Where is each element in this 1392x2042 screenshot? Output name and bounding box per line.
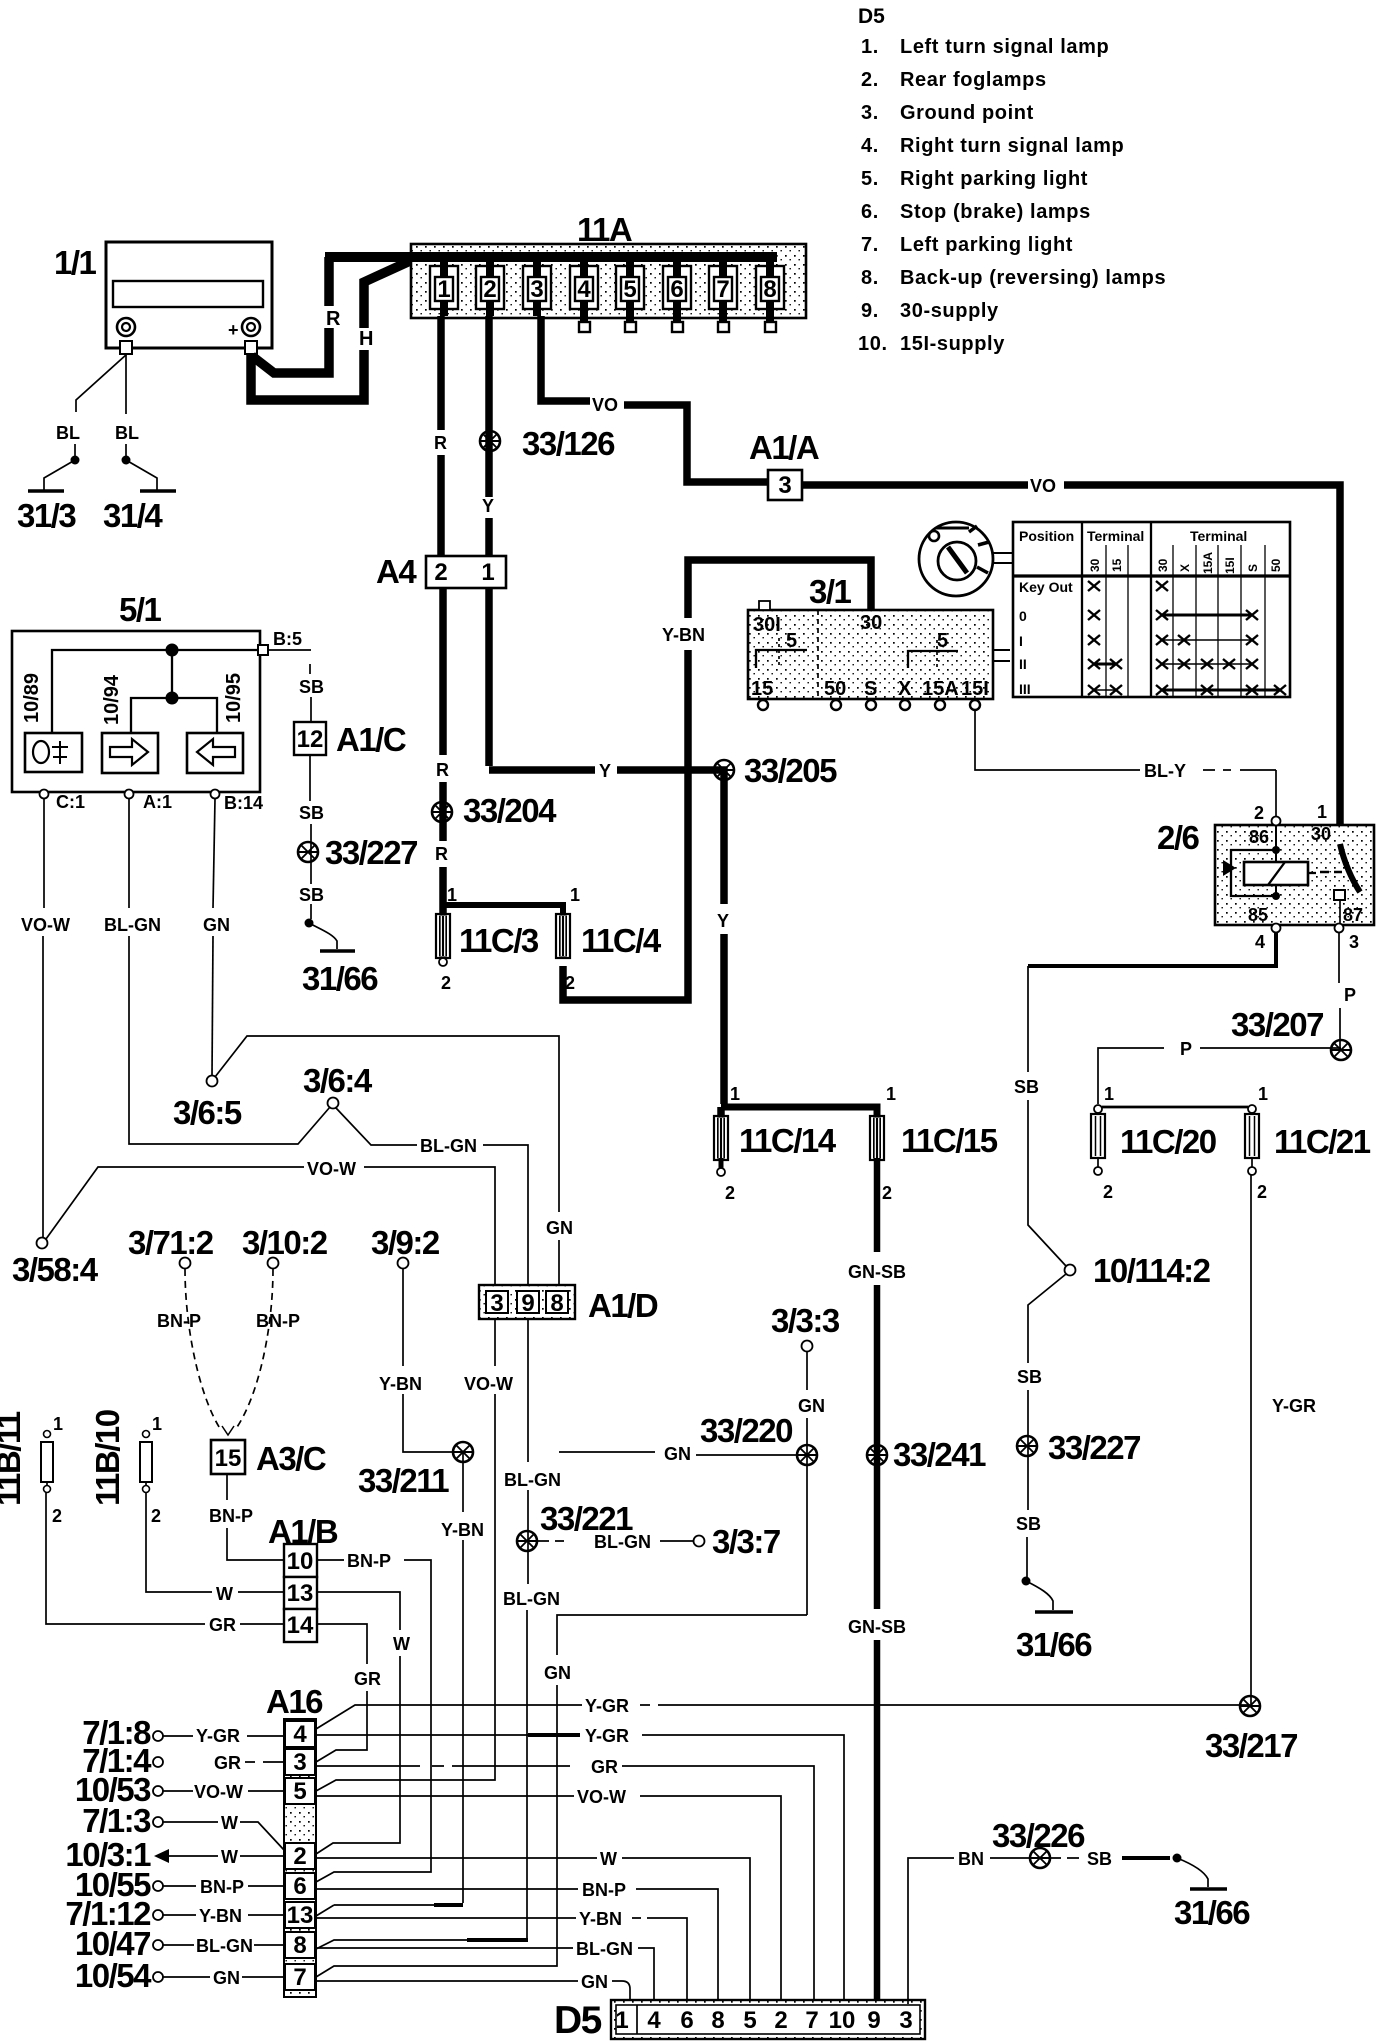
- svg-text:2: 2: [774, 2007, 787, 2034]
- svg-text:5: 5: [786, 630, 797, 652]
- fuse 4: [575, 277, 593, 301]
- svg-text:3.: 3.: [861, 102, 879, 124]
- wire Y from A4 pin 1 to splice 33/205: [489, 588, 595, 770]
- svg-text:BN-P: BN-P: [582, 1880, 626, 1900]
- connector 3/3:7: [694, 1536, 705, 1547]
- svg-text:VO-W: VO-W: [577, 1787, 626, 1807]
- wire BL-Y from 3/1 terminal 15I to relay 2/6 pin 2: [975, 710, 1140, 770]
- svg-text:8.: 8.: [861, 267, 879, 289]
- svg-text:W: W: [393, 1634, 410, 1654]
- svg-text:GN-SB: GN-SB: [848, 1617, 906, 1637]
- svg-text:Y-BN: Y-BN: [662, 625, 705, 645]
- bus bar: [325, 252, 777, 262]
- svg-text:A1/C: A1/C: [336, 721, 406, 758]
- svg-text:6.: 6.: [861, 201, 879, 223]
- svg-text:S: S: [864, 678, 877, 700]
- svg-text:2: 2: [1254, 803, 1264, 823]
- battery 1/1: [54, 242, 272, 354]
- svg-text:X: X: [1178, 564, 1192, 572]
- wire GN row from A16 pin 7 to D5 pin 1: [316, 1980, 578, 1982]
- pin A:1: [125, 790, 134, 799]
- wire BN-P from A1/B pin 10 down to A16 pin 6: [317, 1559, 344, 1561]
- svg-text:2: 2: [441, 973, 451, 993]
- svg-text:3/58:4: 3/58:4: [12, 1251, 99, 1288]
- wire GR from 11B/11 pin 2 to A1/B pin 14: [46, 1493, 205, 1624]
- svg-text:W: W: [221, 1847, 238, 1867]
- svg-text:A1/A: A1/A: [749, 429, 819, 466]
- svg-text:Right parking light: Right parking light: [900, 168, 1088, 190]
- wire P from 33/207 to fuse 11C/20: [1200, 1047, 1341, 1049]
- legend D5: [858, 5, 1166, 355]
- svg-text:2: 2: [52, 1506, 62, 1526]
- connector D5: [554, 1999, 925, 2042]
- splice 33/221: [517, 1531, 537, 1551]
- fuse 1: [435, 277, 453, 301]
- svg-text:30-supply: 30-supply: [900, 300, 999, 322]
- svg-text:SB: SB: [1016, 1514, 1041, 1534]
- svg-text:8: 8: [711, 2007, 724, 2034]
- svg-text:I: I: [1019, 633, 1023, 649]
- wire BL-GN from 3/6:4 to A1/D pin 9: [336, 1108, 417, 1145]
- svg-text:3: 3: [293, 1749, 306, 1776]
- svg-text:6: 6: [293, 1873, 306, 1900]
- svg-text:GR: GR: [354, 1669, 381, 1689]
- svg-text:3: 3: [530, 276, 543, 303]
- wire H battery plus to fuse box corner: [251, 350, 364, 400]
- svg-text:2: 2: [882, 1183, 892, 1203]
- svg-text:85: 85: [1248, 905, 1268, 925]
- connector 3/6:5: [207, 1076, 218, 1087]
- svg-text:3: 3: [899, 2007, 912, 2034]
- svg-text:Y-GR: Y-GR: [196, 1726, 240, 1746]
- wire BN-P row from A16 pin 6 to D5 pin 8: [316, 1888, 578, 1890]
- fuse 11C/21: [1245, 1084, 1371, 1202]
- svg-text:15A: 15A: [1201, 552, 1215, 574]
- svg-text:15I: 15I: [1223, 557, 1237, 574]
- svg-text:D5: D5: [554, 1999, 602, 2042]
- fuse 6: [668, 277, 686, 301]
- fuses 1-8 in 11A: [430, 257, 784, 332]
- wire Y-GR from 11C/21 pin 2 down to splice 33/217: [1250, 1175, 1252, 1706]
- svg-text:A:1: A:1: [143, 792, 172, 812]
- connector A16: [266, 1683, 323, 1997]
- svg-text:GR: GR: [214, 1753, 241, 1773]
- svg-text:Left parking light: Left parking light: [900, 234, 1073, 256]
- svg-text:31/3: 31/3: [17, 497, 76, 534]
- svg-text:15A: 15A: [922, 678, 959, 700]
- svg-text:3/9:2: 3/9:2: [371, 1224, 440, 1261]
- svg-text:Back-up (reversing) lamps: Back-up (reversing) lamps: [900, 267, 1166, 289]
- fuse 11C/20: [1091, 1084, 1216, 1202]
- svg-text:15: 15: [1110, 558, 1124, 572]
- svg-text:11A: 11A: [577, 211, 632, 248]
- svg-text:B:5: B:5: [273, 629, 302, 649]
- svg-text:H: H: [359, 328, 373, 350]
- svg-text:33/204: 33/204: [463, 792, 557, 829]
- svg-text:1: 1: [1104, 1084, 1114, 1104]
- svg-text:GN: GN: [544, 1663, 571, 1683]
- wire SB from relay pin 4 to left column: [1028, 932, 1276, 966]
- terminals below fuses 4-8: [579, 322, 590, 332]
- svg-text:2: 2: [565, 973, 575, 993]
- svg-text:11C/3: 11C/3: [459, 922, 539, 959]
- relay coil: [1244, 862, 1308, 885]
- wire Y from 33/205 down to 11C/14: [720, 779, 728, 904]
- svg-text:BN-P: BN-P: [157, 1311, 201, 1331]
- svg-text:1: 1: [886, 1084, 896, 1104]
- svg-text:8: 8: [293, 1932, 306, 1959]
- svg-text:10/95: 10/95: [223, 673, 245, 723]
- wire BN from D5 pin 3 to splice 33/226: [908, 1858, 954, 2004]
- splice 33/204: [432, 802, 452, 822]
- splice 33/241: [867, 1445, 887, 1465]
- wire GR row from A16 pin 3 to D5 pin 7: [316, 1765, 570, 1767]
- wire VO from A1/A to relay 2/6 pin 1: [802, 481, 1028, 489]
- ground 31/66 right: [1035, 1610, 1073, 1614]
- svg-text:11C/20: 11C/20: [1120, 1123, 1216, 1160]
- svg-text:VO: VO: [592, 395, 618, 415]
- splice 33/211: [453, 1442, 473, 1462]
- svg-text:2: 2: [434, 559, 447, 586]
- svg-text:P: P: [1344, 985, 1356, 1005]
- svg-text:7: 7: [805, 2007, 818, 2034]
- svg-text:+: +: [228, 320, 239, 340]
- fuse 5: [621, 277, 639, 301]
- svg-text:2: 2: [293, 1843, 306, 1870]
- wire BL-GN row from A16 pin 8 to D5 pin 4: [316, 1947, 573, 1949]
- left-arrow box (turn signal): [187, 733, 243, 773]
- splice 33/207: [1331, 1040, 1351, 1060]
- svg-text:11C/14: 11C/14: [739, 1122, 837, 1159]
- svg-text:A16: A16: [266, 1683, 323, 1720]
- fuse 7: [714, 277, 732, 301]
- svg-text:Left turn signal lamp: Left turn signal lamp: [900, 36, 1109, 58]
- svg-text:7.: 7.: [861, 234, 879, 256]
- svg-text:4.: 4.: [861, 135, 879, 157]
- svg-text:33/241: 33/241: [893, 1436, 986, 1473]
- wire Y-GR row from A16 pin 4 to D5 pin 10: [316, 1734, 528, 1736]
- svg-text:SB: SB: [1087, 1849, 1112, 1869]
- svg-text:BL: BL: [56, 423, 80, 443]
- svg-text:VO: VO: [1030, 476, 1056, 496]
- svg-text:3/10:2: 3/10:2: [242, 1224, 328, 1261]
- wire VO-W from A1/D pin 3 down to A16 pin 5: [494, 1319, 496, 1366]
- ground 31/3: [28, 489, 64, 493]
- wire Y-BN from 11C/4 pin 2 to ignition switch 3/1 terminal 30: [563, 650, 688, 1000]
- svg-text:2: 2: [725, 1183, 735, 1203]
- svg-text:1: 1: [730, 1084, 740, 1104]
- svg-text:30: 30: [1088, 558, 1102, 572]
- svg-text:R: R: [434, 433, 447, 453]
- svg-text:Y-GR: Y-GR: [585, 1696, 629, 1716]
- svg-text:GR: GR: [591, 1757, 618, 1777]
- wire R from fuse 1 to A4 pin 2: [437, 316, 445, 430]
- connector A1/B: [268, 1513, 338, 1642]
- svg-text:31/66: 31/66: [1174, 1894, 1250, 1931]
- relay pin 87: [1334, 890, 1345, 900]
- lamp symbol box (parking lights): [25, 733, 82, 772]
- svg-text:7/1:3: 7/1:3: [82, 1802, 151, 1839]
- svg-text:30I: 30I: [753, 614, 781, 636]
- wire Y-BN row from A16 pin 13 to D5 pin 6: [434, 1903, 463, 1907]
- svg-text:33/211: 33/211: [358, 1462, 449, 1499]
- svg-text:1: 1: [437, 276, 450, 303]
- svg-text:9: 9: [521, 1290, 534, 1317]
- right-arrow box (turn signal): [102, 733, 158, 773]
- svg-text:1: 1: [615, 2007, 628, 2034]
- svg-text:X: X: [898, 678, 912, 700]
- svg-text:31/4: 31/4: [103, 497, 163, 534]
- svg-text:SB: SB: [1014, 1077, 1039, 1097]
- svg-text:33/126: 33/126: [522, 425, 615, 462]
- svg-text:BL-GN: BL-GN: [576, 1939, 633, 1959]
- connector 10/114:2: [1065, 1265, 1076, 1276]
- svg-text:B:14: B:14: [224, 793, 263, 813]
- ground 31/66 bottom right: [1190, 1887, 1227, 1891]
- svg-text:VO-W: VO-W: [194, 1782, 243, 1802]
- wire BL-GN from 5/1 A:1 to 3/6:4: [128, 799, 130, 908]
- svg-text:1: 1: [481, 559, 494, 586]
- svg-text:4: 4: [577, 276, 591, 303]
- svg-text:BN-P: BN-P: [256, 1311, 300, 1331]
- svg-text:10/114:2: 10/114:2: [1093, 1252, 1211, 1289]
- svg-text:15I-supply: 15I-supply: [900, 333, 1005, 355]
- wire R battery plus to fuse box bus: [252, 328, 329, 373]
- svg-text:Y: Y: [482, 496, 494, 516]
- splice 33/217: [1240, 1696, 1260, 1716]
- svg-text:2: 2: [483, 276, 496, 303]
- svg-text:BN: BN: [958, 1849, 984, 1869]
- relay pin 3: [1335, 924, 1344, 933]
- ignition switch table: [1013, 522, 1290, 697]
- svg-text:6: 6: [670, 276, 683, 303]
- svg-text:4: 4: [1255, 932, 1265, 952]
- svg-text:Terminal: Terminal: [1087, 528, 1144, 544]
- svg-text:5: 5: [937, 630, 948, 652]
- wire Y-GR row from A16 pin 4 to splice 33/217: [316, 1705, 582, 1729]
- splice 33/126: [480, 431, 500, 451]
- svg-text:3/71:2: 3/71:2: [128, 1224, 214, 1261]
- svg-text:BL-GN: BL-GN: [504, 1470, 561, 1490]
- svg-text:2.: 2.: [861, 69, 879, 91]
- svg-text:2/6: 2/6: [1157, 819, 1200, 856]
- wire GR from A1/B pin 14 down to A16 pin 3: [317, 1624, 367, 1664]
- svg-text:1/1: 1/1: [54, 244, 97, 281]
- svg-text:13: 13: [287, 1902, 314, 1929]
- svg-text:1.: 1.: [861, 36, 879, 58]
- wire W from 11B/10 pin 2 to A1/B pin 13: [146, 1493, 212, 1592]
- svg-text:10/89: 10/89: [21, 673, 43, 723]
- svg-text:GR: GR: [209, 1615, 236, 1635]
- wire VO-W from 5/1 C:1 to 3/58:4: [43, 799, 45, 908]
- connector A3/C: [211, 1440, 245, 1474]
- svg-text:11B/10: 11B/10: [89, 1410, 126, 1506]
- fuse 3: [528, 277, 546, 301]
- svg-text:Y-BN: Y-BN: [441, 1520, 484, 1540]
- svg-text:A1/D: A1/D: [588, 1287, 658, 1324]
- splice 33/226: [1030, 1848, 1050, 1868]
- svg-text:R: R: [435, 844, 448, 864]
- svg-text:5: 5: [743, 2007, 756, 2034]
- relay switch contact: [1340, 844, 1360, 892]
- connector 3/58:4: [37, 1238, 48, 1249]
- wire Y-BN from 33/211 down to A16 pin 13: [462, 1452, 464, 1512]
- svg-text:GN-SB: GN-SB: [848, 1262, 906, 1282]
- svg-text:10/94: 10/94: [101, 674, 123, 725]
- svg-text:BL-GN: BL-GN: [196, 1936, 253, 1956]
- svg-text:A4: A4: [376, 553, 417, 590]
- wire GN from 3/6:5 to A1/D pin 8: [215, 1036, 559, 1212]
- wire GN from 3/3:3 down to splice 33/220: [806, 1352, 808, 1390]
- svg-text:R: R: [326, 308, 341, 330]
- pin B:5: [258, 645, 268, 655]
- wire GN from A1/D pin 8 to splice 33/220: [559, 1451, 655, 1453]
- svg-text:3/1: 3/1: [809, 573, 852, 610]
- svg-text:GN: GN: [546, 1218, 573, 1238]
- fuse 11B/11: [0, 1411, 63, 1526]
- pin C:1: [40, 790, 49, 799]
- svg-text:87: 87: [1343, 905, 1363, 925]
- splice 33/227 right: [1017, 1436, 1037, 1456]
- svg-text:9: 9: [867, 2007, 880, 2034]
- splice 33/205: [714, 760, 734, 780]
- svg-text:GN: GN: [798, 1396, 825, 1416]
- svg-text:GN: GN: [664, 1444, 691, 1464]
- svg-text:1: 1: [570, 885, 580, 905]
- fuse 11C/4: [556, 914, 570, 958]
- svg-text:50: 50: [824, 678, 846, 700]
- fuse 11C/15: [870, 1116, 884, 1160]
- svg-text:2: 2: [1103, 1182, 1113, 1202]
- ground 31/66 left: [320, 949, 355, 953]
- svg-text:BN-P: BN-P: [200, 1877, 244, 1897]
- wire VO-W row from A16 pin 5 to D5 pin 2: [316, 1795, 574, 1797]
- svg-text:50: 50: [1269, 558, 1283, 572]
- ignition key cylinder: [919, 522, 1013, 596]
- svg-text:GN: GN: [203, 915, 230, 935]
- svg-text:30: 30: [1156, 558, 1170, 572]
- svg-text:Y-BN: Y-BN: [379, 1374, 422, 1394]
- fuse box 11A: [325, 211, 806, 318]
- svg-text:33/207: 33/207: [1231, 1006, 1323, 1043]
- svg-text:86: 86: [1249, 827, 1269, 847]
- svg-text:4: 4: [647, 2007, 661, 2034]
- svg-text:11C/4: 11C/4: [581, 922, 662, 959]
- svg-text:BL-GN: BL-GN: [594, 1532, 651, 1552]
- wire GN from 5/1 B:14 to 3/6:5: [213, 799, 215, 908]
- svg-text:33/217: 33/217: [1205, 1727, 1297, 1764]
- wire Y from fuse 2 through splice 33/126 to A4 pin 1: [485, 316, 493, 497]
- svg-text:4: 4: [293, 1721, 307, 1748]
- wire BL from battery minus to ground 31/3: [76, 354, 127, 412]
- battery minus terminal: [117, 318, 135, 336]
- svg-text:R: R: [436, 760, 449, 780]
- svg-text:Y: Y: [717, 911, 729, 931]
- svg-text:III: III: [1019, 681, 1031, 697]
- svg-text:5: 5: [293, 1778, 306, 1805]
- svg-text:Ground point: Ground point: [900, 102, 1034, 124]
- svg-text:Rear foglamps: Rear foglamps: [900, 69, 1047, 91]
- wire BL from battery minus to ground 31/4: [125, 354, 127, 414]
- fuse 11C/3: [436, 914, 450, 958]
- svg-text:W: W: [216, 1584, 233, 1604]
- relay pin 4: [1272, 924, 1281, 933]
- svg-text:BL-Y: BL-Y: [1144, 761, 1186, 781]
- svg-text:II: II: [1019, 656, 1027, 672]
- svg-text:13: 13: [287, 1580, 314, 1607]
- svg-text:33/227: 33/227: [1048, 1429, 1140, 1466]
- svg-text:5.: 5.: [861, 168, 879, 190]
- svg-text:31/66: 31/66: [1016, 1626, 1092, 1663]
- svg-text:1: 1: [53, 1414, 63, 1434]
- svg-text:31/66: 31/66: [302, 960, 378, 997]
- pin B:14: [211, 790, 220, 799]
- svg-text:W: W: [221, 1813, 238, 1833]
- splice 33/227 left: [298, 842, 318, 862]
- svg-text:Stop (brake) lamps: Stop (brake) lamps: [900, 201, 1091, 223]
- svg-text:A3/C: A3/C: [256, 1440, 326, 1477]
- svg-text:30: 30: [860, 612, 882, 634]
- svg-text:W: W: [600, 1849, 617, 1869]
- fuse 11B/10: [89, 1410, 162, 1526]
- svg-text:8: 8: [550, 1290, 563, 1317]
- svg-text:Right turn signal lamp: Right turn signal lamp: [900, 135, 1124, 157]
- svg-text:3/6:5: 3/6:5: [173, 1094, 242, 1131]
- wire pin1 11C/20 to pin1 11C/21: [1102, 1106, 1248, 1109]
- svg-text:BL: BL: [115, 423, 139, 443]
- switch module 5/1: [12, 591, 311, 813]
- svg-text:11C/21: 11C/21: [1274, 1123, 1371, 1160]
- svg-text:6: 6: [680, 2007, 693, 2034]
- connector A1/D: [479, 1285, 658, 1324]
- svg-text:VO-W: VO-W: [21, 915, 70, 935]
- svg-text:Y-GR: Y-GR: [585, 1726, 629, 1746]
- svg-text:SB: SB: [299, 885, 324, 905]
- fuse 8: [761, 277, 779, 301]
- wire R from A4 pin 2 down through splice 33/204 to 11C/3: [439, 588, 447, 755]
- svg-text:33/226: 33/226: [992, 1817, 1085, 1854]
- ground 31/4: [140, 489, 176, 493]
- relay 2/6: [1157, 802, 1374, 952]
- wire VO-W from 3/58:4 to A1/D pin 3: [46, 1167, 304, 1239]
- svg-text:15: 15: [215, 1445, 242, 1472]
- svg-text:11B/11: 11B/11: [0, 1411, 27, 1506]
- svg-text:33/227: 33/227: [325, 834, 417, 871]
- svg-text:BN-P: BN-P: [347, 1551, 391, 1571]
- svg-text:S: S: [1246, 564, 1260, 572]
- svg-text:7: 7: [293, 1964, 306, 1991]
- svg-text:15I: 15I: [961, 678, 989, 700]
- svg-text:30: 30: [1311, 824, 1331, 844]
- svg-text:GN: GN: [581, 1972, 608, 1992]
- connector A4: [376, 553, 506, 590]
- svg-text:2: 2: [1257, 1182, 1267, 1202]
- splice 33/220: [797, 1445, 817, 1465]
- svg-text:1: 1: [152, 1414, 162, 1434]
- wire W from A1/B pin 13 down to A16 pin 2: [317, 1592, 400, 1630]
- svg-text:7: 7: [716, 276, 729, 303]
- 3/1 bottom pins: [758, 700, 768, 710]
- svg-text:10/54: 10/54: [75, 1957, 152, 1994]
- wire BL-GN from 33/221 to 3/3:7: [538, 1540, 564, 1542]
- svg-text:SB: SB: [299, 803, 324, 823]
- ignition switch 3/1: [748, 573, 1010, 710]
- svg-text:10: 10: [287, 1548, 314, 1575]
- svg-text:3: 3: [490, 1290, 503, 1317]
- svg-text:Y-BN: Y-BN: [579, 1909, 622, 1929]
- svg-text:BL-GN: BL-GN: [420, 1136, 477, 1156]
- svg-text:33/205: 33/205: [744, 752, 837, 789]
